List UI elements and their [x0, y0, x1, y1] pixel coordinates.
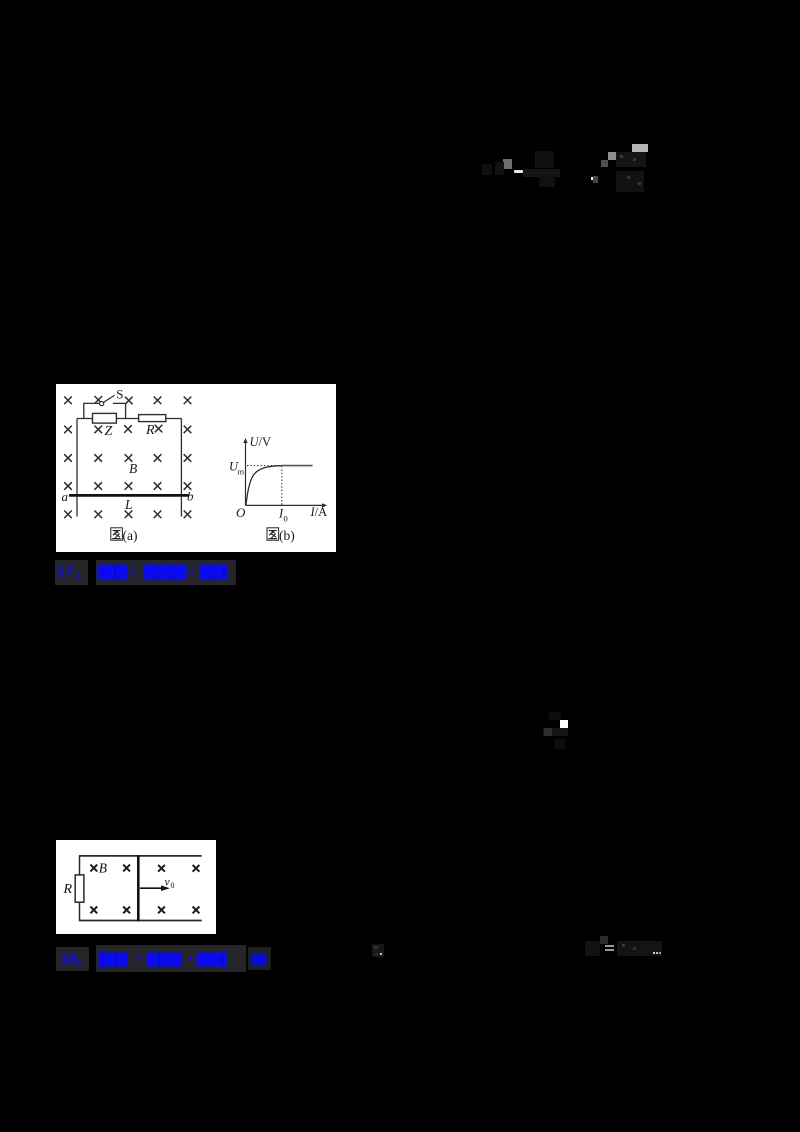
- bottom rail: [80, 920, 202, 922]
- faint equation fragment row (top): [0, 0, 800, 1]
- ideographic comma after 18: [74, 958, 86, 970]
- switch S branch: left riser: [84, 403, 99, 418]
- mid white square: [560, 720, 568, 728]
- svg-text:0: 0: [171, 881, 175, 890]
- svg-text:m: m: [238, 467, 245, 477]
- svg-text:0: 0: [284, 514, 288, 524]
- eq2 sigma-like textured mark: [372, 944, 384, 957]
- problem 17 heading backing: [55, 560, 89, 585]
- mid gray square: [544, 728, 551, 736]
- faint equation fragment row (near problem 18): [0, 0, 800, 1]
- separator dot: [138, 957, 142, 961]
- eq2 left dark blob: [585, 941, 600, 956]
- problem 18 number: [61, 951, 78, 968]
- blue tag segment 3 with closing bracket: [197, 953, 208, 968]
- eq1 right: mid gray square: [608, 152, 616, 160]
- svg-text:R: R: [145, 423, 155, 438]
- graph y-axis: [245, 442, 247, 506]
- eq1 left gray square: [503, 159, 512, 169]
- field x marks row 2: [90, 907, 199, 914]
- magnetic field x marks row 3: [64, 454, 191, 462]
- svg-text:L: L: [124, 497, 133, 512]
- svg-text:(b): (b): [279, 528, 295, 543]
- trailing blue fragment: [252, 954, 267, 967]
- magnetic field x marks row 4: [64, 482, 191, 490]
- saturation curve: [246, 466, 281, 505]
- switch pivot circle: [100, 402, 104, 406]
- svg-text:(a): (a): [123, 528, 138, 543]
- resistor R box: [75, 875, 84, 902]
- figure 2 white panel (rails + rod + R): [56, 840, 216, 934]
- impedance Z box: [93, 413, 117, 423]
- problem 18 heading backing: [56, 947, 89, 971]
- dotted guide: horizontal at Um: [247, 465, 281, 467]
- eq1 white dash: [514, 170, 523, 173]
- eq1 right: darker gray square: [601, 160, 608, 167]
- mid faint lower marks: [554, 739, 565, 749]
- velocity arrow v0: [140, 887, 164, 889]
- switch blade: [104, 395, 115, 402]
- eq2 right dark text blob: [617, 941, 662, 956]
- sliding rod (vertical bar): [137, 855, 140, 921]
- eq1 faint speckle block a: [535, 151, 554, 168]
- blue tag segment 1 with bracket: [98, 565, 101, 581]
- blue tag underlays: [98, 565, 129, 580]
- top rail: [80, 855, 202, 857]
- right rail wire: [180, 419, 182, 517]
- eq1 dark bar: [523, 169, 560, 177]
- svg-text:S: S: [116, 386, 123, 401]
- eq2 gray block above equals: [600, 936, 608, 944]
- caption tu(a): drawn tu glyph: [111, 528, 123, 540]
- eq1 right: lower gray square: [593, 176, 599, 184]
- magnetic field x marks row 2: [64, 425, 191, 433]
- resistor R box: [139, 415, 166, 422]
- blue tag segment 2: [144, 565, 158, 580]
- caption tu(b): drawn tu glyph: [267, 528, 279, 540]
- separator dot: [190, 570, 194, 574]
- svg-text:U/V: U/V: [250, 435, 272, 449]
- eq1 tiny left marks: [482, 164, 492, 175]
- separator dot: [189, 957, 193, 961]
- problem 17 number: [57, 564, 74, 581]
- magnetic field B into page: x marks row 1: [64, 396, 191, 404]
- magnetic field x marks row 5: [64, 511, 191, 519]
- graph x-axis: [246, 504, 324, 506]
- saturation flat line: [281, 465, 313, 467]
- svg-text:O: O: [236, 505, 246, 520]
- svg-text:B: B: [99, 861, 107, 876]
- left rail wire: [76, 419, 78, 517]
- field x marks row 1: [90, 865, 199, 872]
- svg-text:B: B: [129, 461, 137, 476]
- eq1 right: light gray block: [632, 144, 648, 152]
- eq2 white dots: [653, 952, 655, 954]
- blue tag segment 3 with closing bracket: [200, 565, 212, 580]
- faint mid-page fragment: [0, 0, 800, 1]
- eq2 equals sign: [605, 945, 615, 947]
- svg-text:I/A: I/A: [310, 505, 328, 519]
- separator dot: [132, 570, 136, 574]
- mid dark band: [543, 728, 568, 736]
- blue tag segment 1 with bracket: [99, 952, 102, 968]
- svg-text:R: R: [63, 882, 73, 897]
- conducting rod ab: [69, 494, 189, 497]
- wire: top conductor with taps: [77, 418, 181, 420]
- svg-text:b: b: [187, 489, 194, 504]
- figure box (a)+(b) white panel: [56, 384, 336, 552]
- left wire segments: [79, 855, 81, 921]
- switch fixed contact wire and right riser: [113, 403, 126, 418]
- eq1 right speckle blocks: [616, 152, 646, 167]
- blue tag segment 2: [147, 953, 158, 968]
- blue tag underlays: [99, 953, 128, 968]
- dotted guide: vertical at I0: [281, 466, 283, 505]
- ideographic comma after 17: [73, 570, 85, 582]
- svg-text:a: a: [62, 489, 69, 504]
- svg-text:Z: Z: [105, 424, 113, 439]
- eq1 right: white dot: [591, 177, 593, 179]
